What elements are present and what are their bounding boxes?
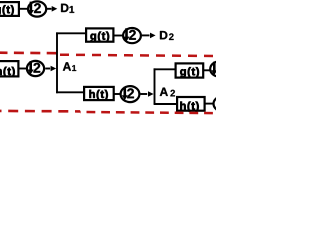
red dashed level-1/level-2 boundary (right segment) <box>57 55 216 56</box>
downsampler level-3 bottom, clipped at right edge <box>214 96 232 111</box>
downsampler (down-arrow 2) level-1 top <box>28 1 46 16</box>
downsampler (down-arrow 2) level-2 bottom <box>121 86 140 102</box>
arrow into node A1 <box>45 66 56 72</box>
wire A2-to-h(t) level-3 <box>154 103 178 105</box>
filter box h(t) level-1 (clipped at left edge) <box>0 61 18 77</box>
downsampler (down-arrow 2) level-1 bottom <box>27 61 44 76</box>
wire A1-to-g(t) level-2 <box>56 32 86 34</box>
label D1 <box>61 4 74 13</box>
filter box g(t) level-2 <box>86 28 113 42</box>
wire g3-to-downsampler <box>204 69 212 71</box>
arrow into node A2 <box>140 91 153 97</box>
arrow to D2 <box>142 33 156 39</box>
node A2 branch line (vertical) <box>154 68 156 104</box>
red dashed level-1/level-2 boundary (left segment) <box>0 51 57 54</box>
arrow to D1 <box>47 6 57 12</box>
downsampler (down-arrow 2) level-3 top, clipped at right edge <box>210 61 228 76</box>
label D2 <box>160 31 174 40</box>
downsampler (down-arrow 2) level-2 top <box>123 28 141 43</box>
label A2 <box>160 88 175 97</box>
red dashed level-2/level-3 boundary (left segment) <box>0 110 80 113</box>
label A1 <box>63 62 76 71</box>
wire A1-to-h(t) level-2 <box>56 91 84 93</box>
wire g2-to-downsampler <box>114 35 124 37</box>
wire h3-to-downsampler <box>206 103 215 105</box>
wire h2-to-downsampler <box>114 93 121 95</box>
filter box h(t) level-3 <box>177 97 205 112</box>
filter box h(t) level-2 <box>84 87 114 100</box>
wire g1-to-downsampler <box>19 8 28 10</box>
filter box g(t) level-3 <box>176 63 204 77</box>
wire A2-to-g(t) level-3 <box>154 68 176 70</box>
red dashed level-2/level-3 boundary (right segment) <box>80 112 216 113</box>
node A1 branch line (vertical) <box>56 32 58 93</box>
filter box g(t) level-1 (clipped at left edge) <box>0 2 19 16</box>
wire h1-to-downsampler <box>19 68 28 70</box>
